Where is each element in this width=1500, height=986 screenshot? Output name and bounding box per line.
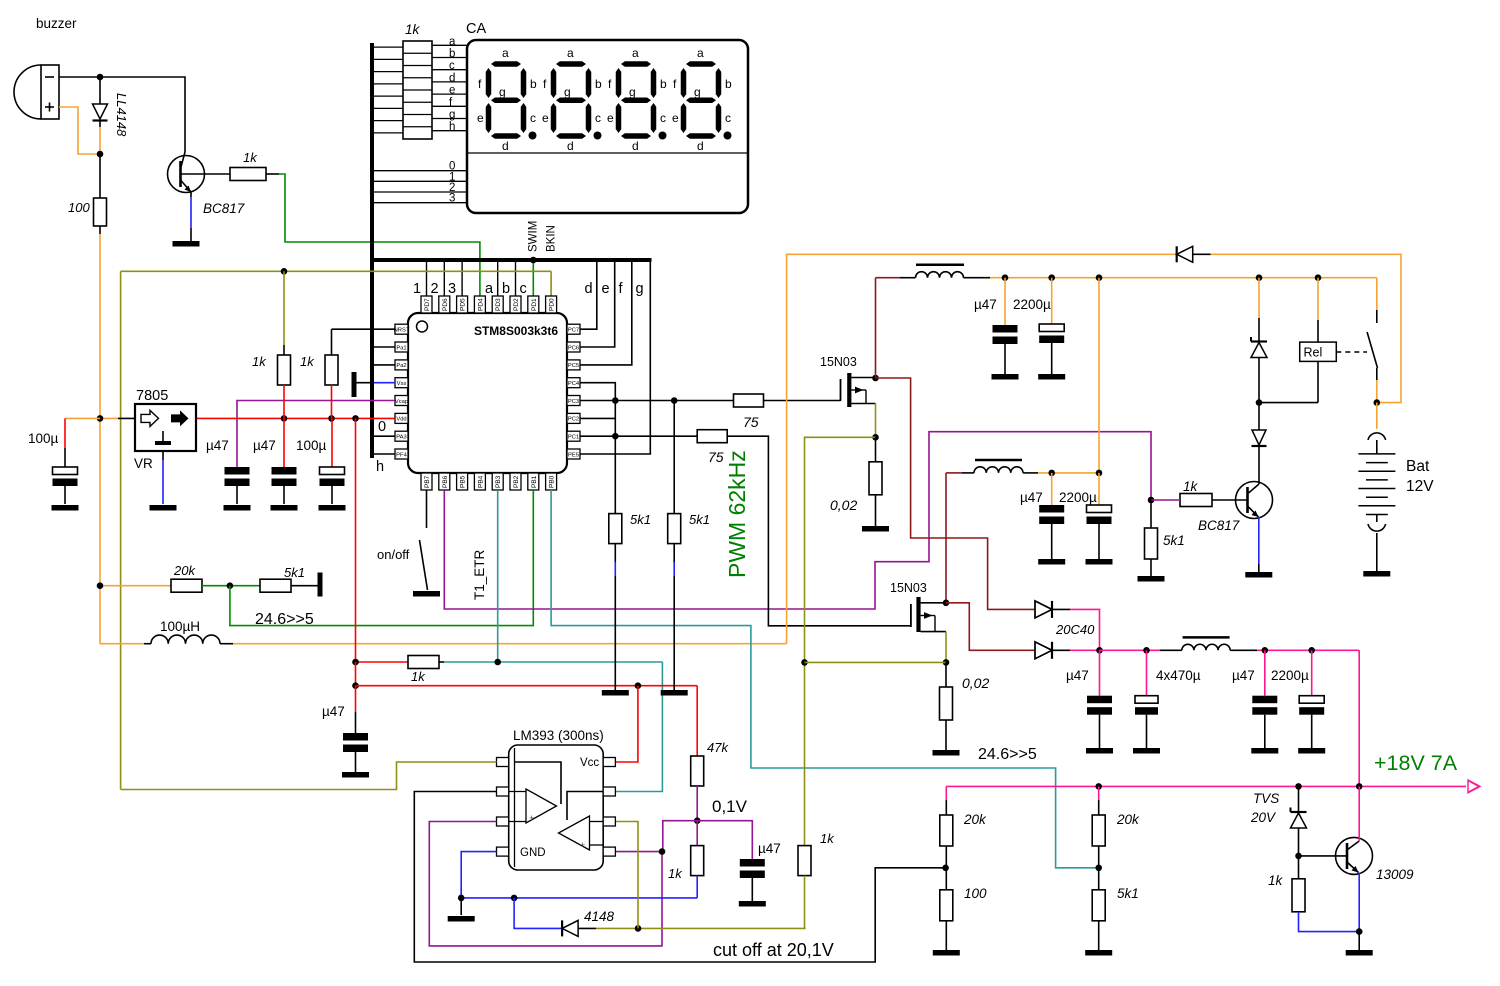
capacitor C 100u (input) <box>65 417 100 419</box>
wire buzzer minus to BC817 collector <box>59 77 185 152</box>
svg-text:5k1: 5k1 <box>630 512 651 527</box>
ground shunt2 <box>933 750 960 756</box>
svg-text:d: d <box>697 139 704 153</box>
capacitor C u47 (out3) <box>1264 650 1266 695</box>
wire blue ground net <box>461 897 697 899</box>
svg-text:15N03: 15N03 <box>820 355 857 369</box>
wire orange to 20k <box>100 585 171 587</box>
node gnd junctions <box>458 895 465 902</box>
ground LM393 <box>460 898 462 915</box>
ground shunt1 <box>862 526 889 532</box>
svg-text:PE5: PE5 <box>568 452 579 458</box>
wire rectifier output (magenta) <box>1052 608 1070 610</box>
svg-text:LL4148: LL4148 <box>114 93 129 137</box>
svg-text:4x470µ: 4x470µ <box>1156 668 1201 683</box>
capacitor C u47 (out1) <box>1099 650 1101 695</box>
svg-text:c: c <box>449 60 455 72</box>
switch relay contact <box>1376 278 1378 310</box>
ground battery <box>1363 571 1390 577</box>
svg-text:c: c <box>530 111 536 125</box>
display LED 4-digit (CA) <box>467 40 748 213</box>
svg-text:NRST: NRST <box>394 328 410 334</box>
svg-text:PB5: PB5 <box>460 475 467 488</box>
wire Q2 emitter (blue) <box>1258 517 1260 564</box>
regulator VR 7805 <box>135 404 196 451</box>
svg-text:a: a <box>502 46 509 60</box>
diode D (feedback) <box>1177 246 1193 262</box>
svg-text:PC3: PC3 <box>568 399 579 405</box>
wire LM393 pin2 (battery sense) <box>414 792 945 963</box>
node L1 output junctions <box>1002 274 1009 281</box>
wire 7805 ground (blue) <box>162 451 164 460</box>
wire Q1 emitter to ground <box>190 192 192 197</box>
wire NRST to pull-up <box>332 328 396 330</box>
wire magenta filter rail <box>1100 649 1160 651</box>
node olive junction <box>801 659 808 666</box>
node 0,1V <box>694 817 701 824</box>
node filter junctions <box>1143 647 1150 654</box>
terminal bar (Vss) <box>352 372 357 397</box>
resistor R 0,02 (shunt2) <box>945 662 947 687</box>
wire LM393 pin3 (purple) <box>429 822 662 946</box>
svg-text:PB6: PB6 <box>442 475 449 488</box>
diode LL4148 <box>99 79 101 104</box>
svg-text:b: b <box>595 77 602 91</box>
svg-text:Vdd: Vdd <box>396 417 406 423</box>
node PB3/1k junction <box>494 659 501 666</box>
ground C-Vcap <box>224 505 251 511</box>
svg-text:PC2: PC2 <box>568 417 579 423</box>
svg-text:e: e <box>477 111 484 125</box>
svg-text:2: 2 <box>431 281 439 297</box>
svg-text:PB7: PB7 <box>424 475 431 488</box>
svg-text:BC817: BC817 <box>203 201 245 216</box>
IC U2 left pins <box>497 758 509 767</box>
wire L3 out (magenta) <box>1257 649 1359 651</box>
ground C-Vdd1 <box>271 505 298 511</box>
capacitor C 2200u (out4) <box>1311 650 1313 695</box>
svg-text:1k: 1k <box>300 354 315 369</box>
resistor R 75 (gate2) <box>697 430 727 443</box>
svg-text:1: 1 <box>413 281 421 297</box>
node rectifier junction <box>1096 647 1103 654</box>
wire orange rail (L1 output) <box>990 277 1377 279</box>
ground Q3 <box>1346 950 1373 956</box>
svg-text:PC5: PC5 <box>568 363 579 369</box>
svg-text:PD2: PD2 <box>513 298 520 311</box>
capacitor C 100u (Vdd) <box>331 418 333 467</box>
resistor network RN1 1k <box>403 41 432 139</box>
wire source1 to comparator net (olive) <box>805 437 876 845</box>
wire PF4 stub <box>374 453 395 455</box>
svg-text:h: h <box>376 459 384 475</box>
resistor R 5k1 (out divider) <box>1092 890 1105 921</box>
resistor R 5k1 (Q2 base) <box>1150 500 1152 528</box>
wire L2 to drain2 (dark red) <box>946 472 962 474</box>
wire source olive link <box>805 661 947 663</box>
svg-text:100µ: 100µ <box>28 431 59 446</box>
svg-text:µ47: µ47 <box>1020 490 1043 505</box>
wire 5k1 to terminal <box>291 585 318 587</box>
wire Vdd red down <box>355 418 357 662</box>
resistor R 20k (bat divider) <box>945 786 947 800</box>
svg-text:PD3: PD3 <box>495 298 502 311</box>
svg-text:a: a <box>632 46 639 60</box>
wire magenta down to +18V rail <box>1358 650 1360 786</box>
wire buzzer plus (orange) <box>59 107 100 154</box>
svg-text:c: c <box>520 281 527 297</box>
wire BKIN olive to PD0 <box>550 271 552 296</box>
wire drain1 to L1 (dark red) <box>875 278 877 378</box>
svg-text:47k: 47k <box>707 740 729 755</box>
svg-text:µ47: µ47 <box>758 841 781 856</box>
wire red to comparator (Vdd) <box>355 662 357 686</box>
wire 1k to PB3 (teal) <box>439 661 444 663</box>
svg-text:VR: VR <box>134 456 153 471</box>
capacitor C 2200u (stage2) <box>1098 473 1100 505</box>
ground 5k1-2 <box>661 690 688 696</box>
wire 0,1V purple <box>663 821 753 859</box>
ground Q1 emitter <box>173 241 200 247</box>
wire 20k to 5k1 (green) <box>202 585 260 587</box>
resistor R 5k1 (PWM2) <box>668 514 681 544</box>
wire 24.6>>5 to PB1 (green) <box>230 490 533 626</box>
wire 100R down (orange rail left) <box>99 226 101 234</box>
resistor R 100 (bat divider) <box>940 890 953 921</box>
inductor L 100uH <box>100 643 144 645</box>
svg-text:g: g <box>636 281 644 297</box>
svg-text:b: b <box>530 77 537 91</box>
svg-text:0,02: 0,02 <box>962 675 989 691</box>
svg-text:1k: 1k <box>252 354 267 369</box>
node SWIM junction on bus <box>530 257 537 264</box>
svg-text:g: g <box>694 85 701 99</box>
svg-text:µ47: µ47 <box>1232 668 1255 683</box>
node top rail junctions <box>1256 274 1263 281</box>
wire source2 (olive) <box>945 632 947 663</box>
node emitter junction <box>1356 928 1363 935</box>
svg-text:Vcap: Vcap <box>395 399 408 405</box>
diode D (bat to driver) <box>1258 403 1260 430</box>
svg-text:1k: 1k <box>1183 479 1199 494</box>
transistor Q3 13009 <box>1336 837 1373 874</box>
relay REL coil <box>1317 278 1319 320</box>
svg-text:e: e <box>542 111 549 125</box>
svg-text:e: e <box>602 281 610 297</box>
node 20k junction on orange rail <box>97 582 104 589</box>
ground 5k1-1 <box>602 690 629 696</box>
node Q2 base divider <box>1148 497 1155 504</box>
ground Q2 <box>1245 572 1272 578</box>
svg-text:c: c <box>725 111 731 125</box>
svg-text:+18V 7A: +18V 7A <box>1374 751 1458 775</box>
svg-text:g: g <box>564 85 571 99</box>
ground C-out2 <box>1133 748 1160 754</box>
IC U2 right pins <box>603 758 615 767</box>
svg-text:µ47: µ47 <box>253 438 276 453</box>
ground 5k1 Q2 <box>1138 576 1165 582</box>
svg-text:BC817: BC817 <box>1198 518 1240 533</box>
ground C-out1 <box>1086 748 1113 754</box>
node olive/1k junction <box>281 268 288 275</box>
display digit 4 segments <box>686 61 716 67</box>
transistor M1 15N03 <box>840 379 842 401</box>
wire base Q3 <box>1299 855 1348 857</box>
node PC3/PC4 junction <box>612 397 619 404</box>
transistor Q2 BC817 <box>1258 454 1260 484</box>
resistor R 1k (NRST pull-up) <box>331 329 333 355</box>
node relay bottom junction <box>1256 399 1263 406</box>
svg-text:a: a <box>697 46 704 60</box>
IC U1 left pins <box>395 324 408 334</box>
svg-text:PC4: PC4 <box>568 381 580 387</box>
wire Q3 collector (magenta) <box>1358 786 1360 841</box>
svg-text:PA3: PA3 <box>396 435 407 441</box>
wires RN1 to display a-h <box>432 44 467 46</box>
svg-text:b: b <box>502 281 510 297</box>
svg-text:2200µ: 2200µ <box>1059 490 1097 505</box>
buzzer BZ1 <box>14 65 41 119</box>
svg-text:Bat: Bat <box>1406 458 1430 475</box>
wire orange rail to SMPS <box>233 643 787 645</box>
IC U2 internals op-amp B <box>559 816 590 850</box>
svg-text:PB2: PB2 <box>513 475 520 488</box>
wire relay contact dashed <box>1336 351 1367 353</box>
capacitor C u47 (Vdd) <box>283 418 285 467</box>
node PC1 junction <box>612 433 619 440</box>
resistor R 5k1 (PWM1) <box>609 514 622 544</box>
svg-text:Vss: Vss <box>397 381 407 387</box>
svg-text:1k: 1k <box>668 866 683 881</box>
wire teal to LM393 pin7 <box>616 662 662 792</box>
wire 75 to gate1 <box>764 400 841 402</box>
svg-text:0,1V: 0,1V <box>712 797 748 816</box>
bus horizontal (MCU top) <box>372 258 652 262</box>
svg-text:100µH: 100µH <box>160 619 200 634</box>
svg-text:b: b <box>660 77 667 91</box>
wire PC2 join <box>580 417 615 419</box>
svg-text:20V: 20V <box>1250 810 1277 825</box>
wire 1k to 4148 (olive) <box>804 876 806 929</box>
IC U2 internals op-amp A <box>515 762 562 804</box>
display digit 2 segments <box>556 61 586 67</box>
svg-text:d: d <box>567 139 574 153</box>
IC U1 right pins <box>567 324 580 334</box>
wire diode to battery switch (orange) <box>1193 253 1211 255</box>
svg-text:TVS: TVS <box>1253 791 1279 806</box>
node +18V junctions <box>1095 783 1102 790</box>
wire PC4 to 5k1 column <box>580 383 615 514</box>
node pin5 junction <box>659 848 666 855</box>
wire drain2 to rectifier (dark red) <box>946 603 1035 651</box>
svg-text:PD7: PD7 <box>424 298 431 311</box>
svg-text:PB0: PB0 <box>549 475 556 488</box>
svg-text:CA: CA <box>466 21 486 37</box>
bus vertical (display signals) <box>370 43 374 458</box>
svg-text:µ47: µ47 <box>322 704 345 719</box>
svg-text:20C40: 20C40 <box>1055 622 1095 637</box>
svg-text:PD4: PD4 <box>477 298 484 311</box>
resistor R 1k (Q3) <box>1298 856 1300 879</box>
svg-text:0,02: 0,02 <box>830 497 857 513</box>
wire 1k to gnd net (blue) <box>696 876 698 898</box>
svg-text:g: g <box>499 85 506 99</box>
svg-text:d: d <box>449 72 455 84</box>
svg-text:PB3: PB3 <box>495 475 502 488</box>
ground C-out3 <box>1251 748 1278 754</box>
node source2 <box>943 659 950 666</box>
svg-text:on/off: on/off <box>377 547 410 562</box>
ground bat divider <box>933 950 960 956</box>
svg-text:µ47: µ47 <box>206 438 229 453</box>
wire source1 (olive) <box>875 404 877 438</box>
wire PC1 row <box>580 435 697 437</box>
transistor Q1 BC817 <box>168 156 205 193</box>
svg-text:20k: 20k <box>963 812 987 827</box>
svg-text:4148: 4148 <box>584 909 615 924</box>
svg-text:b: b <box>449 48 455 60</box>
inductor L1 <box>916 272 964 278</box>
resistor R 1k (Q1 base) <box>230 168 266 181</box>
ground C100u <box>52 505 79 511</box>
svg-text:1k: 1k <box>243 150 258 165</box>
svg-text:5k1: 5k1 <box>1163 533 1185 548</box>
ground 7805 <box>150 505 177 511</box>
node red junction <box>352 682 359 689</box>
wires bus to display digit select 0-3 <box>374 170 467 172</box>
svg-text:20k: 20k <box>1116 812 1140 827</box>
ground C-0,1V <box>739 901 766 907</box>
svg-text:100: 100 <box>68 200 90 215</box>
ground C-stage2b <box>1086 559 1113 565</box>
diode TVS 20V <box>1298 786 1300 812</box>
svg-text:PB1: PB1 <box>531 475 538 488</box>
svg-text:0: 0 <box>378 419 386 435</box>
node 4148/pin6 junction <box>635 925 642 932</box>
svg-text:+: + <box>580 840 585 850</box>
wire PC3 row <box>580 400 734 402</box>
wire Q1 base <box>181 173 231 175</box>
wire L2 output (orange) <box>1023 472 1038 474</box>
inductor L2 <box>974 467 1023 473</box>
svg-text:d: d <box>632 139 639 153</box>
svg-text:d: d <box>585 281 593 297</box>
svg-text:g: g <box>629 85 636 99</box>
wire relay node <box>1259 402 1318 404</box>
node out divider junction <box>1098 846 1100 890</box>
IC U2 LM393 body <box>509 745 604 870</box>
wire PA3 stub <box>374 435 395 437</box>
svg-text:STM8S003k3t6: STM8S003k3t6 <box>474 324 558 338</box>
terminal bar (battery sense) <box>318 573 323 597</box>
wire PB6 to relay driver (purple) <box>444 432 1151 609</box>
svg-text:b: b <box>725 77 732 91</box>
svg-text:PC6: PC6 <box>568 345 579 351</box>
IC U1 top pins PD7-PD0 <box>421 296 432 313</box>
resistor R 1k (current sense) <box>798 846 811 876</box>
wire Pa1 stub <box>374 346 395 348</box>
resistor R 1k (0,1V divider) <box>696 821 698 846</box>
svg-text:e: e <box>672 111 679 125</box>
svg-text:BKIN: BKIN <box>546 225 558 252</box>
svg-text:a: a <box>449 36 456 48</box>
svg-text:1k: 1k <box>405 22 421 37</box>
wire bus to PC6 (e) <box>580 260 615 347</box>
resistor R 20k (out divider) <box>1098 786 1100 800</box>
capacitor C u47 (0,1V) <box>740 859 765 867</box>
resistor R 5k1 (sense) <box>260 579 291 592</box>
svg-text:5k1: 5k1 <box>689 512 710 527</box>
svg-text:12V: 12V <box>1406 478 1434 495</box>
diode D 20C40 b <box>1035 642 1052 659</box>
wire PB3 down (teal) <box>497 490 499 662</box>
resistor R 47k <box>696 686 698 756</box>
svg-text:µ47: µ47 <box>974 297 997 312</box>
node drain2 <box>943 600 950 607</box>
wire LL4148 to node (orange) <box>99 127 101 154</box>
wire LM393 pin5 (purple) <box>616 851 662 853</box>
node drain1 <box>872 375 879 382</box>
capacitor C 4x470u <box>1146 650 1148 695</box>
ground C-stage1a <box>992 374 1019 380</box>
svg-text:a: a <box>485 281 494 297</box>
diode D 20C40 a <box>1035 601 1052 618</box>
wire Vcap (purple) <box>237 401 395 468</box>
ground C-stage2a <box>1038 559 1065 565</box>
svg-text:GND: GND <box>520 847 546 859</box>
svg-text:e: e <box>449 85 455 97</box>
node Vcc branch <box>635 682 642 689</box>
ground C-stage1b <box>1038 374 1065 380</box>
diode D 4148 <box>562 920 578 936</box>
svg-text:a: a <box>567 46 574 60</box>
wire LM393 pin4 GND (blue) <box>461 852 496 898</box>
svg-text:Rel: Rel <box>1304 346 1323 360</box>
svg-text:2200µ: 2200µ <box>1271 668 1309 683</box>
svg-text:24.6>>5: 24.6>>5 <box>255 611 314 628</box>
svg-text:cut off at 20,1V: cut off at 20,1V <box>713 940 834 960</box>
battery BAT 12V <box>1376 403 1378 429</box>
svg-text:Pa1: Pa1 <box>396 345 406 351</box>
svg-text:LM393 (300ns): LM393 (300ns) <box>513 728 604 743</box>
wire bus to PC5 (f) <box>580 260 632 365</box>
wire +18V rail (magenta) <box>946 785 1466 787</box>
wires bus to RN1 <box>374 46 403 48</box>
svg-text:5k1: 5k1 <box>1117 886 1139 901</box>
wire drain1 to rectifier (dark red) <box>876 378 1036 609</box>
node L2 output junctions <box>1048 470 1055 477</box>
node 7805 input junction <box>97 415 104 422</box>
svg-text:1k: 1k <box>1268 873 1284 888</box>
wire Q3 emitter net (blue) <box>1299 912 1360 932</box>
wire 47k to 0,1V node (purple) <box>696 786 698 821</box>
capacitor C u47 (Vcap) <box>225 467 250 475</box>
ground out divider <box>1085 950 1112 956</box>
wire orange feedback rail (top) <box>787 254 1177 643</box>
svg-text:100: 100 <box>964 886 987 901</box>
wire SWIM to PD1 (green) <box>532 260 534 296</box>
svg-text:SWIM: SWIM <box>528 221 540 252</box>
wire 1k to PD4 (green) <box>266 173 279 175</box>
wire blue to 4148 <box>514 898 562 929</box>
ground C-Vdd2 <box>319 505 346 511</box>
capacitor C u47 (ref filter) <box>355 686 357 712</box>
wire red 0,1V feed <box>356 685 698 687</box>
wire PB0 to 20k/5k1 (teal) <box>551 490 1099 868</box>
svg-text:PD5: PD5 <box>460 298 467 311</box>
svg-text:75: 75 <box>743 414 759 430</box>
wire bus to PE5 (g) <box>580 260 650 454</box>
